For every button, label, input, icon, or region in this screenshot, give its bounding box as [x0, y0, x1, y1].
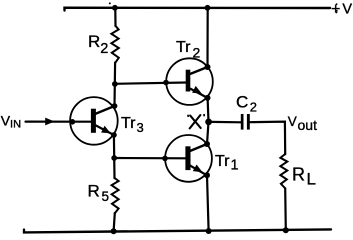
wire input Vin to Tr3 base [26, 120, 92, 122]
node X label quote marks [187, 115, 189, 117]
wire Tr3 emitter node to R5 [113, 135, 116, 178]
wire middle bus rail to Tr2 collector [206, 8, 208, 67]
junction dot Tr1 collector [204, 141, 210, 147]
scan speck above top rail [109, 2, 111, 4]
wire Tr2 base from left bus [115, 83, 187, 84]
transistor Tr1 emitter arrow [193, 165, 203, 173]
transistor Tr2 emitter lead [190, 89, 208, 98]
node X junction dot [205, 119, 212, 126]
wire R2 bottom to Tr3 collector node [113, 63, 116, 107]
transistor Tr3 base bar [91, 109, 96, 133]
junction dot rail top at R2 [112, 5, 118, 11]
wire RL bottom to ground rail [284, 188, 287, 230]
resistor R5 [112, 178, 119, 213]
junction dot Tr2 collector [205, 64, 211, 70]
transistor Tr3 emitter arrow [101, 126, 111, 134]
wire bottom ground rail [24, 229, 331, 232]
wire node X to C2 [211, 121, 241, 124]
junction dot Tr2 emitter [205, 95, 211, 101]
transistor Tr1 collector lead [190, 144, 207, 151]
transistor Tr2 collector lead [190, 67, 208, 74]
transistor Tr3 emitter lead [95, 125, 114, 135]
transistor Tr1 circle [165, 135, 212, 182]
junction dot RL at ground rail [283, 227, 289, 233]
transistor Tr2 base bar [186, 70, 191, 92]
transistor Tr3 collector lead [95, 106, 115, 114]
wire R5 bottom to ground rail [114, 213, 115, 232]
junction dot R2 bottom / Tr2 base tap [112, 81, 118, 87]
junction dot Tr1 emitter [204, 172, 210, 178]
resistor RL [280, 154, 287, 188]
junction dot Tr3 base at circle edge [70, 119, 76, 125]
scan specks near +V [336, 3, 338, 5]
wire node X to Tr1 collector [207, 122, 209, 144]
transistor Tr2 circle [166, 58, 213, 105]
capacitor C2 right plate [247, 114, 250, 130]
resistor R2 [111, 26, 118, 63]
wire Tr2 emitter to node X [207, 98, 210, 122]
svg-text:+V: +V [331, 1, 352, 18]
junction dot Tr3 emitter [111, 132, 117, 138]
junction dot Tr1 emitter at ground rail [206, 228, 212, 234]
transistor Tr3 circle [70, 97, 118, 145]
transistor Tr2 emitter arrow [192, 86, 202, 94]
capacitor C2 left plate [241, 114, 244, 130]
junction dot R5 at ground rail [111, 228, 117, 234]
wire Tr1 base from left bus [114, 157, 186, 160]
junction dot Tr1 base tap [111, 155, 117, 161]
wire left bus top segment (rail to R2) [114, 8, 116, 26]
node X label [190, 115, 201, 128]
junction dot Tr2 base at circle edge [163, 80, 169, 86]
wire top supply rail +V [65, 8, 331, 11]
input arrow Vin [45, 118, 54, 126]
junction dot Tr1 base at circle edge [162, 156, 168, 162]
junction dot Tr3 collector [112, 103, 118, 109]
wire Tr1 emitter to ground rail [207, 175, 209, 231]
transistor Tr1 emitter lead [190, 166, 207, 176]
junction dot rail top at middle bus [205, 5, 211, 11]
wire C2 to output corner [250, 122, 286, 155]
transistor Tr1 base bar [185, 146, 190, 170]
